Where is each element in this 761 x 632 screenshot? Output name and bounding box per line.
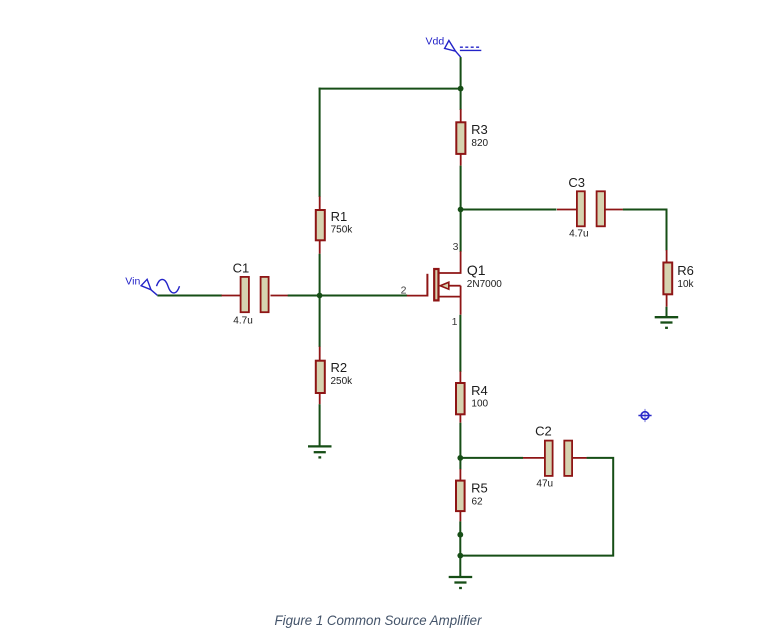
svg-text:2: 2 (401, 284, 407, 296)
wire C1 to gate node (288, 295, 320, 297)
junction mid node (457, 455, 463, 461)
junction gate node (317, 293, 323, 299)
svg-text:3: 3 (453, 241, 459, 253)
power terminal Vdd (445, 41, 482, 58)
wire left riser (319, 88, 321, 197)
wire R5 to ground (459, 521, 461, 576)
svg-text:Q1: Q1 (467, 262, 486, 278)
svg-text:100: 100 (471, 398, 488, 409)
svg-text:4.7u: 4.7u (569, 228, 588, 239)
svg-text:Figure 1 Common Source Amplifi: Figure 1 Common Source Amplifier (275, 612, 483, 628)
wire C2 loop (460, 458, 613, 556)
transistor Q1 (407, 251, 461, 314)
wire mid node to C2 (460, 457, 523, 459)
junction lower 1 (457, 532, 463, 538)
svg-text:C3: C3 (568, 175, 585, 190)
wire Vdd stub (460, 57, 462, 110)
resistor R3 (456, 109, 465, 166)
svg-text:R5: R5 (471, 481, 488, 496)
svg-text:4.7u: 4.7u (233, 315, 252, 326)
svg-text:R2: R2 (331, 360, 348, 375)
resistor R6 (663, 250, 672, 307)
wire source to R4 (459, 315, 461, 372)
junction lower 2 (457, 553, 463, 559)
resistor R5 (456, 469, 465, 521)
svg-text:Vin: Vin (125, 275, 140, 287)
svg-text:C1: C1 (233, 261, 250, 276)
generator terminal Vin (141, 279, 157, 295)
capacitor C3 (557, 191, 623, 226)
wire R2 to ground (319, 404, 321, 445)
wire node to gate (320, 295, 408, 297)
wire Vin to C1 (157, 295, 222, 297)
origin marker (638, 409, 651, 422)
svg-text:R3: R3 (471, 122, 488, 137)
svg-text:47u: 47u (536, 478, 553, 489)
svg-text:Vdd: Vdd (426, 36, 445, 48)
svg-text:62: 62 (472, 496, 484, 507)
svg-text:2N7000: 2N7000 (467, 279, 502, 290)
resistor R1 (316, 196, 325, 253)
ground left (308, 446, 332, 457)
capacitor C1 (222, 277, 289, 312)
svg-text:R6: R6 (677, 263, 694, 278)
svg-text:750k: 750k (331, 225, 354, 236)
wire R6 to ground (666, 307, 668, 317)
junction top (458, 86, 464, 92)
sine symbol (157, 279, 180, 293)
wire C3 to R6 (623, 210, 667, 251)
wire R4 to mid node (459, 423, 461, 470)
svg-text:R4: R4 (471, 383, 488, 398)
svg-text:1: 1 (452, 316, 458, 328)
resistor R4 (456, 371, 465, 422)
wire drain node to C3 (461, 209, 557, 211)
wire R1 to R2 (319, 254, 321, 347)
svg-text:R1: R1 (331, 209, 348, 224)
svg-text:10k: 10k (677, 279, 694, 290)
ground bottom (449, 577, 473, 588)
svg-text:820: 820 (471, 138, 488, 149)
svg-text:C2: C2 (535, 424, 552, 439)
junction drain node (458, 207, 464, 213)
svg-text:250k: 250k (331, 376, 354, 387)
capacitor C2 (523, 441, 587, 476)
wire R3 to drain node (460, 166, 462, 252)
ground right (655, 317, 679, 328)
wire top bus (319, 88, 462, 90)
resistor R2 (316, 347, 325, 405)
